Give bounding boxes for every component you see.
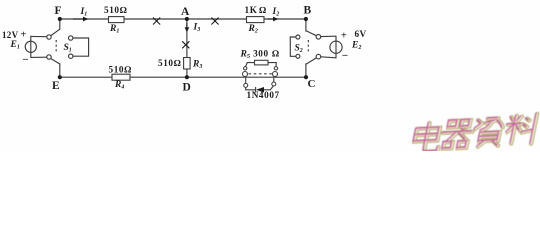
svg-text:510Ω: 510Ω xyxy=(104,5,127,15)
svg-text:510Ω: 510Ω xyxy=(109,64,132,74)
socket posts on D-C wire xyxy=(243,72,278,77)
svg-text:R4: R4 xyxy=(114,80,124,91)
blade 1 xyxy=(51,29,60,35)
svg-text:S1: S1 xyxy=(64,43,72,54)
svg-text:–: – xyxy=(342,50,349,61)
wire middle A-D xyxy=(186,19,188,58)
svg-text:B: B xyxy=(304,5,312,17)
diode lead stems xyxy=(246,78,274,84)
resistor R5 xyxy=(255,60,269,65)
svg-text:R3: R3 xyxy=(192,60,202,71)
node D xyxy=(185,75,189,79)
svg-text:1KΩ: 1KΩ xyxy=(245,5,267,15)
svg-text:S2: S2 xyxy=(295,44,303,55)
svg-text:I2: I2 xyxy=(272,7,280,18)
svg-text:R1: R1 xyxy=(109,24,119,35)
resistor R2 xyxy=(247,17,265,23)
wire bottom E-C xyxy=(60,76,306,78)
svg-text:R5300Ω: R5300Ω xyxy=(240,49,279,61)
switch contacts left xyxy=(47,29,60,64)
node C xyxy=(304,75,308,79)
diode lead rings xyxy=(244,83,248,87)
diode 1N4007 xyxy=(246,86,274,93)
svg-text:R2: R2 xyxy=(248,24,258,35)
svg-text:A: A xyxy=(181,6,190,18)
current I1 arrow xyxy=(73,17,88,22)
node F xyxy=(58,17,62,21)
node E xyxy=(58,75,62,79)
battery E2 xyxy=(321,36,342,59)
svg-text:E2: E2 xyxy=(351,41,361,52)
svg-text:E: E xyxy=(52,80,60,92)
svg-text:C: C xyxy=(308,78,316,90)
svg-text:–: – xyxy=(22,54,29,65)
node A xyxy=(185,17,189,21)
blade 1 xyxy=(306,31,316,36)
mech link dashed xyxy=(307,40,309,54)
wire F down xyxy=(59,19,61,29)
svg-text:+: + xyxy=(341,30,347,41)
switch S1 box xyxy=(69,36,89,59)
current I3 arrow xyxy=(185,23,190,32)
resistor R4 xyxy=(112,74,130,80)
contact circle 1 xyxy=(316,35,321,40)
wire R3 to D xyxy=(186,69,188,77)
switch S2 box xyxy=(290,35,300,58)
current I2 arrow xyxy=(268,17,279,22)
wire to E xyxy=(59,64,61,77)
svg-text:1N4007: 1N4007 xyxy=(247,90,280,100)
switch contacts right xyxy=(306,31,321,65)
blade 2 xyxy=(51,59,60,64)
mech link dashed xyxy=(55,40,57,54)
R5 lead wires xyxy=(246,63,277,67)
break mark X3 on A-D wire xyxy=(182,41,189,48)
battery E1 xyxy=(25,36,47,58)
wire to C xyxy=(305,64,307,77)
break mark X1 xyxy=(153,18,160,25)
svg-text:+: + xyxy=(21,30,27,41)
break mark X2 xyxy=(211,18,218,25)
contact circle 1 xyxy=(47,35,51,39)
svg-text:F: F xyxy=(55,5,62,17)
wire top F-B xyxy=(60,18,306,20)
node B xyxy=(304,17,308,21)
svg-text:6V: 6V xyxy=(355,29,367,39)
resistor R1 xyxy=(109,17,125,23)
dashed removable link xyxy=(249,73,273,75)
svg-text:I3: I3 xyxy=(193,23,201,34)
svg-text:510Ω: 510Ω xyxy=(158,58,181,68)
svg-text:D: D xyxy=(183,82,191,94)
wire B down xyxy=(305,19,307,31)
resistor R3 xyxy=(184,58,191,70)
svg-text:E1: E1 xyxy=(10,40,20,51)
R5 lead rings xyxy=(244,67,247,70)
contact circle 2 xyxy=(47,55,51,59)
contact circle 2 xyxy=(316,54,321,59)
svg-text:I1: I1 xyxy=(80,7,88,18)
blade 2 xyxy=(306,58,316,64)
svg-text:12V: 12V xyxy=(2,30,19,40)
